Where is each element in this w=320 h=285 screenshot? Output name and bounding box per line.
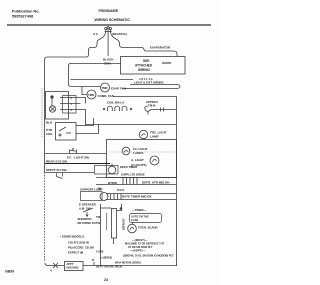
wire auto box to motor (132, 223, 134, 225)
svg-text:APPT: APPT (67, 262, 74, 266)
compressor housing box (65, 262, 84, 271)
svg-text:WHITE: WHITE (162, 61, 171, 65)
svg-text:HOUSING: HOUSING (67, 266, 79, 270)
svg-text:(SMD ML OI OL SM DOM IO MODEM): (SMD ML OI OL SM DOM IO MODEM) PLT (123, 254, 174, 258)
svg-text:LAMPS: LAMPS (133, 151, 144, 155)
svg-text:TM-M: TM-M (148, 104, 156, 108)
svg-text:GB99: GB99 (5, 270, 14, 274)
motor evaporator fan (101, 83, 127, 92)
wire bottom main (45, 263, 177, 266)
lamp freezer light (139, 130, 166, 138)
svg-text:FRIGIDAIRE: FRIGIDAIRE (99, 9, 119, 13)
svg-text:EXPECT (M: EXPECT (M (68, 251, 84, 255)
svg-text:TM: TM (96, 215, 101, 219)
svg-text:SPPTT SU SW.: SPPTT SU SW. (46, 168, 67, 172)
wire dashed companion (41, 88, 43, 137)
svg-text:SUPPORT LIGHT: SUPPORT LIGHT (80, 188, 103, 192)
thermostat cold control (145, 106, 177, 115)
switch ff light row1 (45, 148, 107, 159)
junction box SEE ATTACHED WIRING (121, 57, 186, 75)
svg-text:—(ADPT)—: —(ADPT)— (130, 249, 145, 253)
relay compressor box (46, 92, 77, 120)
wire neutral left from plug (45, 32, 106, 172)
relay terminal numbers (71, 96, 73, 112)
svg-text:PIL/ACCRD. CB SM: PIL/ACCRD. CB SM (68, 246, 94, 250)
bus right vertical (176, 97, 178, 267)
svg-text:TMR: TMR (102, 86, 108, 90)
bus bar rounded (122, 85, 180, 89)
timer box (95, 166, 119, 175)
svg-text:(NEUTRAL): (NEUTRAL) (112, 32, 127, 36)
svg-text:RETURNS DUTW: RETURNS DUTW (78, 221, 101, 225)
svg-text:A.M. SW.: A.M. SW. (79, 207, 91, 211)
svg-text:ATTACHED: ATTACHED (135, 64, 153, 68)
svg-text:AUTO TM THE: AUTO TM THE (131, 215, 149, 219)
switch defrost row2 (45, 160, 110, 164)
lamp interior main (150, 156, 159, 165)
svg-text:23: 23 (104, 278, 108, 282)
wire upper branch (71, 79, 134, 81)
svg-text:BTRW: BTRW (108, 181, 117, 185)
arrow down (86, 212, 88, 217)
svg-text:BLK: BLK (46, 121, 53, 125)
label lights qty (131, 158, 147, 167)
svg-text:DEFR TIMER: DEFR TIMER (120, 165, 137, 169)
svg-text:REAR SYS SW.: REAR SYS SW. (46, 160, 68, 164)
svg-text:TOTAL BLAND: TOTAL BLAND (138, 226, 158, 230)
wire ground center from plug (107, 32, 109, 56)
svg-text:COND. FAN: COND. FAN (98, 94, 115, 98)
label ff light (133, 147, 148, 155)
svg-text:—TIMER—: —TIMER— (132, 208, 146, 212)
svg-text:5995327498: 5995327498 (12, 14, 33, 18)
wire feed condenser fan (82, 87, 87, 95)
svg-text:+(SENS): +(SENS) (101, 256, 112, 260)
svg-text:2: 2 (71, 96, 73, 100)
svg-text:3: 3 (71, 108, 73, 112)
svg-text:Publication No.: Publication No. (12, 10, 40, 14)
overload protector box (56, 123, 77, 141)
fixture box interior lights (107, 140, 177, 178)
motor timer (128, 224, 158, 233)
wire evaporator drop (147, 51, 177, 57)
lamp interior small (122, 147, 130, 155)
svg-text:EVAPORATOR: EVAPORATOR (150, 46, 171, 50)
timer motor vertical box (100, 204, 122, 244)
terminal row circles (103, 106, 132, 111)
svg-text:COLR'S SUB IN: COLR'S SUB IN (68, 241, 89, 245)
svg-text:F.F. - LIGHT SW.: F.F. - LIGHT SW. (67, 156, 90, 160)
svg-text:A DIM: A DIM (96, 250, 103, 254)
adaptive defrost box (130, 214, 162, 223)
label sherrod returns (78, 217, 101, 225)
svg-text:CASE: CASE (131, 218, 138, 222)
svg-text:DEFR. HTR MID DK: DEFR. HTR MID DK (142, 181, 170, 185)
wire condenser fan to bus (113, 96, 177, 98)
wire overload to row (76, 118, 99, 134)
switch row3 (45, 168, 94, 179)
svg-text:—(MOST)—: —(MOST)— (132, 238, 148, 242)
label PTC coil (46, 128, 53, 136)
wire left vertical dashed lower (44, 172, 46, 262)
header rule (7, 24, 211, 26)
motor condenser fan (87, 90, 114, 99)
svg-text:RATE TIMER MID DK: RATE TIMER MID DK (122, 195, 152, 199)
header publication number text (12, 10, 40, 19)
motor defrost timer (108, 164, 137, 174)
svg-text:TMR: TMR (88, 93, 94, 97)
heater row1 defrost heater (96, 178, 177, 185)
power plug prongs (105, 27, 112, 32)
junction X bottom (53, 263, 58, 268)
svg-text:WIRING: WIRING (138, 68, 150, 72)
label approx (146, 100, 158, 108)
svg-text:D: D (92, 258, 95, 262)
wire light circuit top (69, 64, 121, 87)
wire hot right from plug (110, 32, 147, 51)
svg-text:SEE: SEE (143, 59, 149, 63)
svg-text:• SOME MODELS: • SOME MODELS (60, 235, 84, 239)
note some models block (60, 235, 94, 255)
switch diagonal (83, 208, 93, 212)
svg-text:WIRING SCHEMATIC: WIRING SCHEMATIC (95, 18, 131, 22)
svg-text:1: 1 (71, 102, 73, 106)
svg-text:LIGHT & FIXT. WIRING: LIGHT & FIXT. WIRING (134, 81, 164, 85)
svg-text:COIL MA LA: COIL MA LA (107, 101, 125, 105)
heater row2 mullion heater (100, 193, 177, 201)
svg-text:A. LIGHT: A. LIGHT (131, 158, 144, 162)
svg-text:LAMP: LAMP (150, 135, 159, 139)
wire dashed interior (109, 151, 176, 153)
wire main mid horizontal (85, 124, 177, 126)
svg-text:D M O: D M O (117, 189, 124, 192)
wire switch drop (106, 213, 108, 230)
svg-text:4: 4 (50, 269, 52, 273)
label BLACK/GRN (103, 58, 114, 66)
svg-text:DEFROST: DEFROST (123, 218, 126, 230)
label e speaker (79, 203, 97, 211)
svg-text:COIL: COIL (46, 132, 53, 136)
compressor cluster wires (100, 204, 102, 266)
svg-text:SUPPL LTD SENSE: SUPPL LTD SENSE (121, 173, 145, 177)
svg-text:A.C.: A.C. (93, 32, 99, 36)
switch cabinet box (80, 188, 103, 201)
terminal D (92, 258, 95, 266)
wires relay to terminals (69, 98, 86, 125)
